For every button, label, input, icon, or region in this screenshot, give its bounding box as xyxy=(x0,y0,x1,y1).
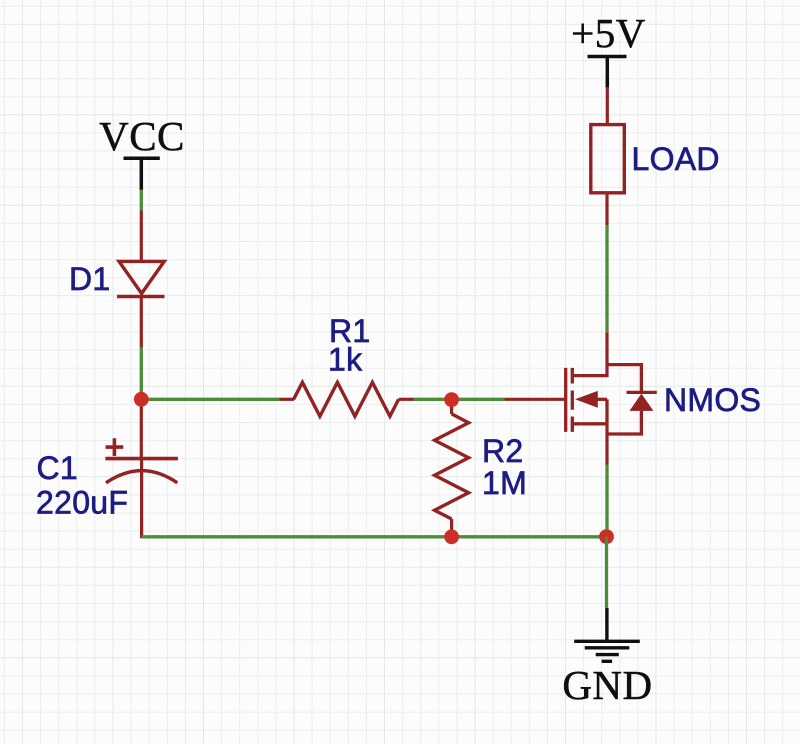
wire R1 to node B (green) xyxy=(414,398,505,401)
wire NMOS source to bus (green) xyxy=(605,465,608,531)
wire VCC to D1 (green) xyxy=(140,190,143,211)
wire D1 to node A (green) xyxy=(140,348,143,400)
svg-text:1k: 1k xyxy=(328,342,363,378)
wire C1 bottom pin (red) xyxy=(140,459,143,538)
svg-text:VCC: VCC xyxy=(99,113,185,159)
resistor LOAD (box) xyxy=(591,125,625,193)
svg-text:NMOS: NMOS xyxy=(664,382,761,418)
svg-text:220uF: 220uF xyxy=(36,485,128,521)
transistor Q1 NMOS xyxy=(566,365,657,434)
svg-text:GND: GND xyxy=(562,662,652,708)
wire +5V to LOAD (red) xyxy=(606,87,609,125)
junction node D (bus/source) xyxy=(599,529,614,544)
wire NMOS source pin (red) xyxy=(605,424,608,465)
gate bar xyxy=(564,368,567,432)
wire R1 left pin (red) xyxy=(280,398,295,401)
wire GND stub (black) xyxy=(605,608,608,641)
capacitor C1 bottom plate (arc) xyxy=(106,471,177,483)
channel dashes xyxy=(571,368,574,432)
svg-text:LOAD: LOAD xyxy=(632,141,720,177)
NMOS body arrow xyxy=(575,391,598,408)
body diode cathode bar xyxy=(627,391,657,394)
ground symbol xyxy=(574,641,640,661)
wire LOAD to NMOS drain (green) xyxy=(605,225,608,332)
wire LOAD bottom pin (red) xyxy=(605,193,608,225)
wire NMOS drain pin (red) xyxy=(605,332,608,377)
body to source vertical xyxy=(605,399,608,424)
wire D1 cathode pin (red) xyxy=(140,297,143,348)
capacitor C1 plus sign xyxy=(106,438,124,456)
wire bottom bus (green) xyxy=(142,535,607,538)
svg-text:1M: 1M xyxy=(482,465,527,501)
resistor R1 xyxy=(294,382,399,416)
svg-text:+5V: +5V xyxy=(571,10,646,56)
wire bus to GND (green) xyxy=(605,537,608,608)
drain horizontal xyxy=(574,374,607,377)
diode D1 xyxy=(117,261,165,296)
svg-text:C1: C1 xyxy=(37,450,79,486)
body diode top link xyxy=(607,365,641,393)
wire C1 top pin (red) xyxy=(140,399,143,458)
wire R1 right pin (red) xyxy=(399,398,414,401)
capacitor C1 top plate xyxy=(105,457,177,461)
svg-text:R2: R2 xyxy=(482,433,524,469)
wire D1 anode pin (red) xyxy=(140,211,143,263)
junction node B (gate) xyxy=(444,392,459,407)
source horizontal xyxy=(574,422,607,425)
svg-text:D1: D1 xyxy=(69,261,111,297)
junction node A xyxy=(134,392,149,407)
junction node C (R2/bus) xyxy=(444,529,459,544)
resistor R2 xyxy=(435,414,469,519)
body diode bottom link xyxy=(607,411,641,434)
net VCC power symbol xyxy=(124,158,160,190)
resistor R2 bottom pin (red) xyxy=(450,519,453,530)
wire NMOS gate pin (red) xyxy=(504,398,565,401)
NMOS body diode triangle xyxy=(630,394,654,411)
resistor R2 top pin (red) xyxy=(450,400,453,414)
wire node A horizontal (green) xyxy=(141,398,279,401)
net +5V power symbol xyxy=(588,57,627,89)
body horizontal xyxy=(597,398,608,401)
